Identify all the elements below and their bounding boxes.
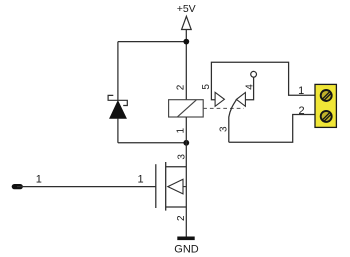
- svg-text:+5V: +5V: [177, 3, 196, 15]
- junction dot bottom: [183, 140, 189, 146]
- wire diode anode down: [117, 118, 119, 142]
- svg-text:GND: GND: [174, 243, 199, 255]
- gate bar: [155, 164, 157, 208]
- terminal block J1 body: [315, 84, 336, 127]
- terminal screw 2: [321, 111, 332, 122]
- drain connector: [166, 166, 187, 168]
- contact pin 4 open circle: [251, 71, 257, 77]
- svg-text:5: 5: [201, 84, 212, 90]
- svg-text:1: 1: [298, 85, 304, 97]
- wire contact pin 3 to terminal 2: [229, 115, 315, 143]
- svg-text:1: 1: [138, 174, 144, 186]
- svg-text:2: 2: [176, 215, 187, 221]
- contact fixed point 4 triangle: [236, 93, 245, 107]
- source connector: [166, 206, 187, 208]
- wire contact pin 4 stub: [245, 77, 253, 100]
- input terminal pad: [12, 184, 23, 189]
- contact fixed point 5 triangle: [215, 92, 224, 106]
- dashed actuator link coil to contact: [203, 107, 244, 109]
- wire diode anode to lower junction (horizontal): [118, 142, 186, 144]
- ground bar: [177, 237, 194, 241]
- svg-text:2: 2: [176, 84, 187, 90]
- MOSFET Q1: [156, 162, 187, 211]
- wire relay pin 1 to junction: [185, 117, 187, 143]
- svg-text:3: 3: [219, 126, 230, 132]
- +5V power symbol arrow: [182, 16, 192, 29]
- zener diode D1 anode triangle: [110, 101, 127, 119]
- wire input to MOSFET gate: [17, 186, 156, 188]
- wire junction to diode cathode (horizontal): [118, 41, 186, 43]
- wire contact pin 5 up and across top: [211, 62, 314, 100]
- svg-text:4: 4: [245, 84, 256, 90]
- contact movable arm pin 3: [229, 100, 237, 143]
- wire junction to MOSFET drain and down to GND: [185, 143, 187, 237]
- svg-text:1: 1: [36, 174, 42, 186]
- body arrow: [168, 179, 183, 194]
- svg-text:1: 1: [176, 127, 187, 133]
- channel bar: [165, 162, 167, 211]
- wire +5V to relay pin 2: [185, 30, 187, 100]
- relay coil K1: [169, 100, 204, 117]
- junction dot top: [183, 39, 189, 45]
- svg-text:2: 2: [298, 105, 304, 117]
- zener diode D1 cathode bar with hooks: [108, 95, 127, 105]
- terminal screw 1: [321, 90, 332, 101]
- wire down to diode D1: [117, 42, 119, 101]
